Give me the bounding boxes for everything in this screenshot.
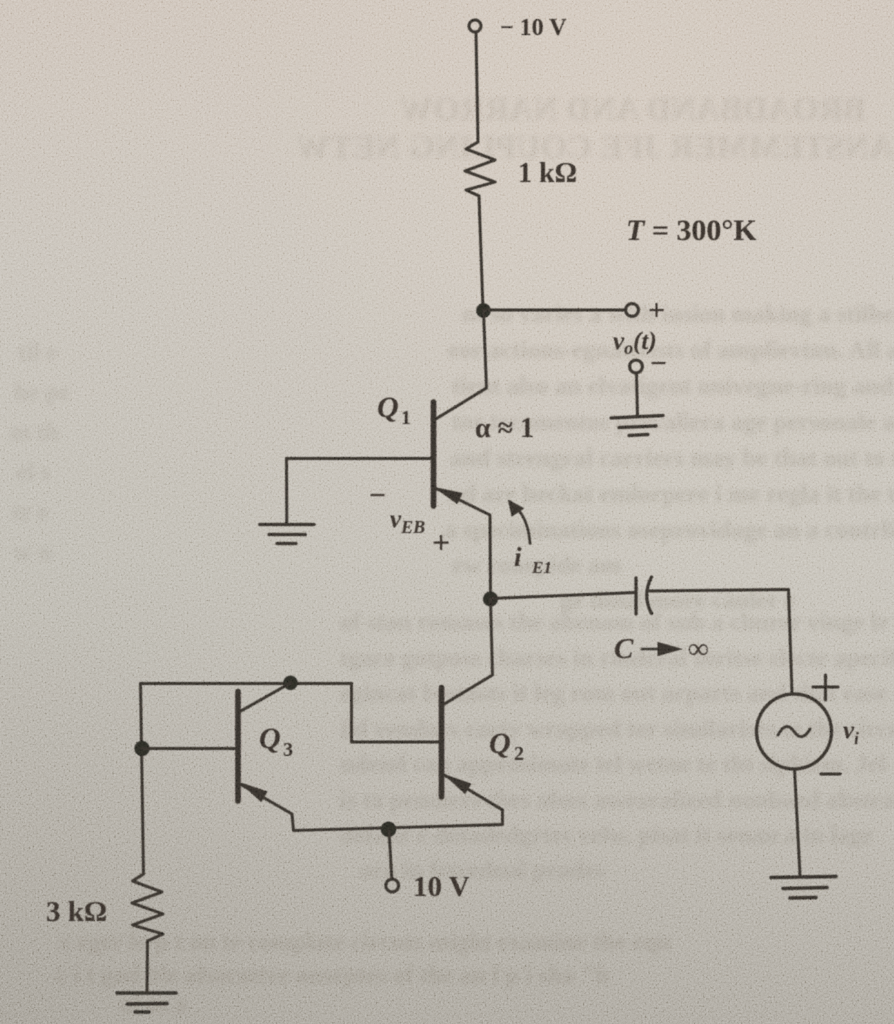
Q1 emitter lead (435, 488, 491, 598)
iE1 curved arrow (511, 502, 531, 544)
capacitor C left plate (634, 578, 637, 614)
source Vi circle (757, 694, 832, 769)
wire capacitor to corner and down to source (650, 590, 792, 695)
Q2 emitter arrow (PNP) (446, 775, 471, 793)
minus sign at source (821, 773, 840, 776)
wire Q1 base to ground (285, 459, 288, 523)
wire node D to Q3 base (142, 747, 236, 750)
resistor R2 3k (132, 874, 163, 941)
Q1 collector lead (435, 311, 487, 420)
terminal vo- (630, 360, 643, 373)
capacitor C right plate (647, 577, 652, 614)
Q3 collector lead (240, 683, 291, 712)
sine symbol (778, 727, 810, 737)
wire node A to vo terminal (484, 309, 625, 312)
left vertical wire (141, 684, 144, 875)
resistor R1 1k (465, 142, 495, 196)
wire vo- to ground (637, 373, 638, 416)
transistor Q2 (294, 599, 503, 831)
Q3 emitter lead (240, 784, 294, 831)
left top wire (Q3 collector rail) (141, 682, 352, 685)
ground under vo (611, 416, 663, 436)
node D (Q3 base node) (134, 741, 149, 756)
ground under source (771, 877, 836, 899)
wire rail corner down to Q2 base (352, 684, 441, 743)
node B (iE1 node) (483, 592, 498, 607)
circuit ink (117, 20, 840, 1012)
node C (on collector rail) (283, 676, 297, 690)
Q2 base bar (439, 688, 445, 798)
ground at Q1 base (260, 525, 314, 544)
terminal 10V (386, 879, 399, 892)
wire resistor to node A (479, 196, 483, 310)
Q2 emitter lead (294, 775, 503, 831)
ground under R2 (117, 993, 176, 1012)
Q2 collector lead (444, 599, 493, 705)
wire resistor R2 to ground (146, 941, 149, 991)
wire source to ground (795, 769, 801, 875)
wire node E to 10V terminal (389, 830, 392, 879)
node A (476, 303, 491, 318)
plus sign at source (813, 675, 838, 700)
terminal -10V (469, 20, 481, 32)
terminal vo+ (626, 304, 639, 317)
transistor Q3 (238, 683, 294, 831)
Q1 base bar (431, 402, 437, 506)
wire node B to capacitor C (491, 593, 636, 599)
wire terminal to resistor R1 (476, 33, 478, 143)
transistor Q1 (287, 311, 491, 598)
Q1 base lead (287, 457, 434, 460)
node E (10V node) (381, 822, 396, 837)
Q3 base bar (235, 692, 241, 802)
Q1 emitter arrow (PNP) (436, 488, 462, 503)
Q3 emitter arrow (PNP) (242, 784, 267, 802)
